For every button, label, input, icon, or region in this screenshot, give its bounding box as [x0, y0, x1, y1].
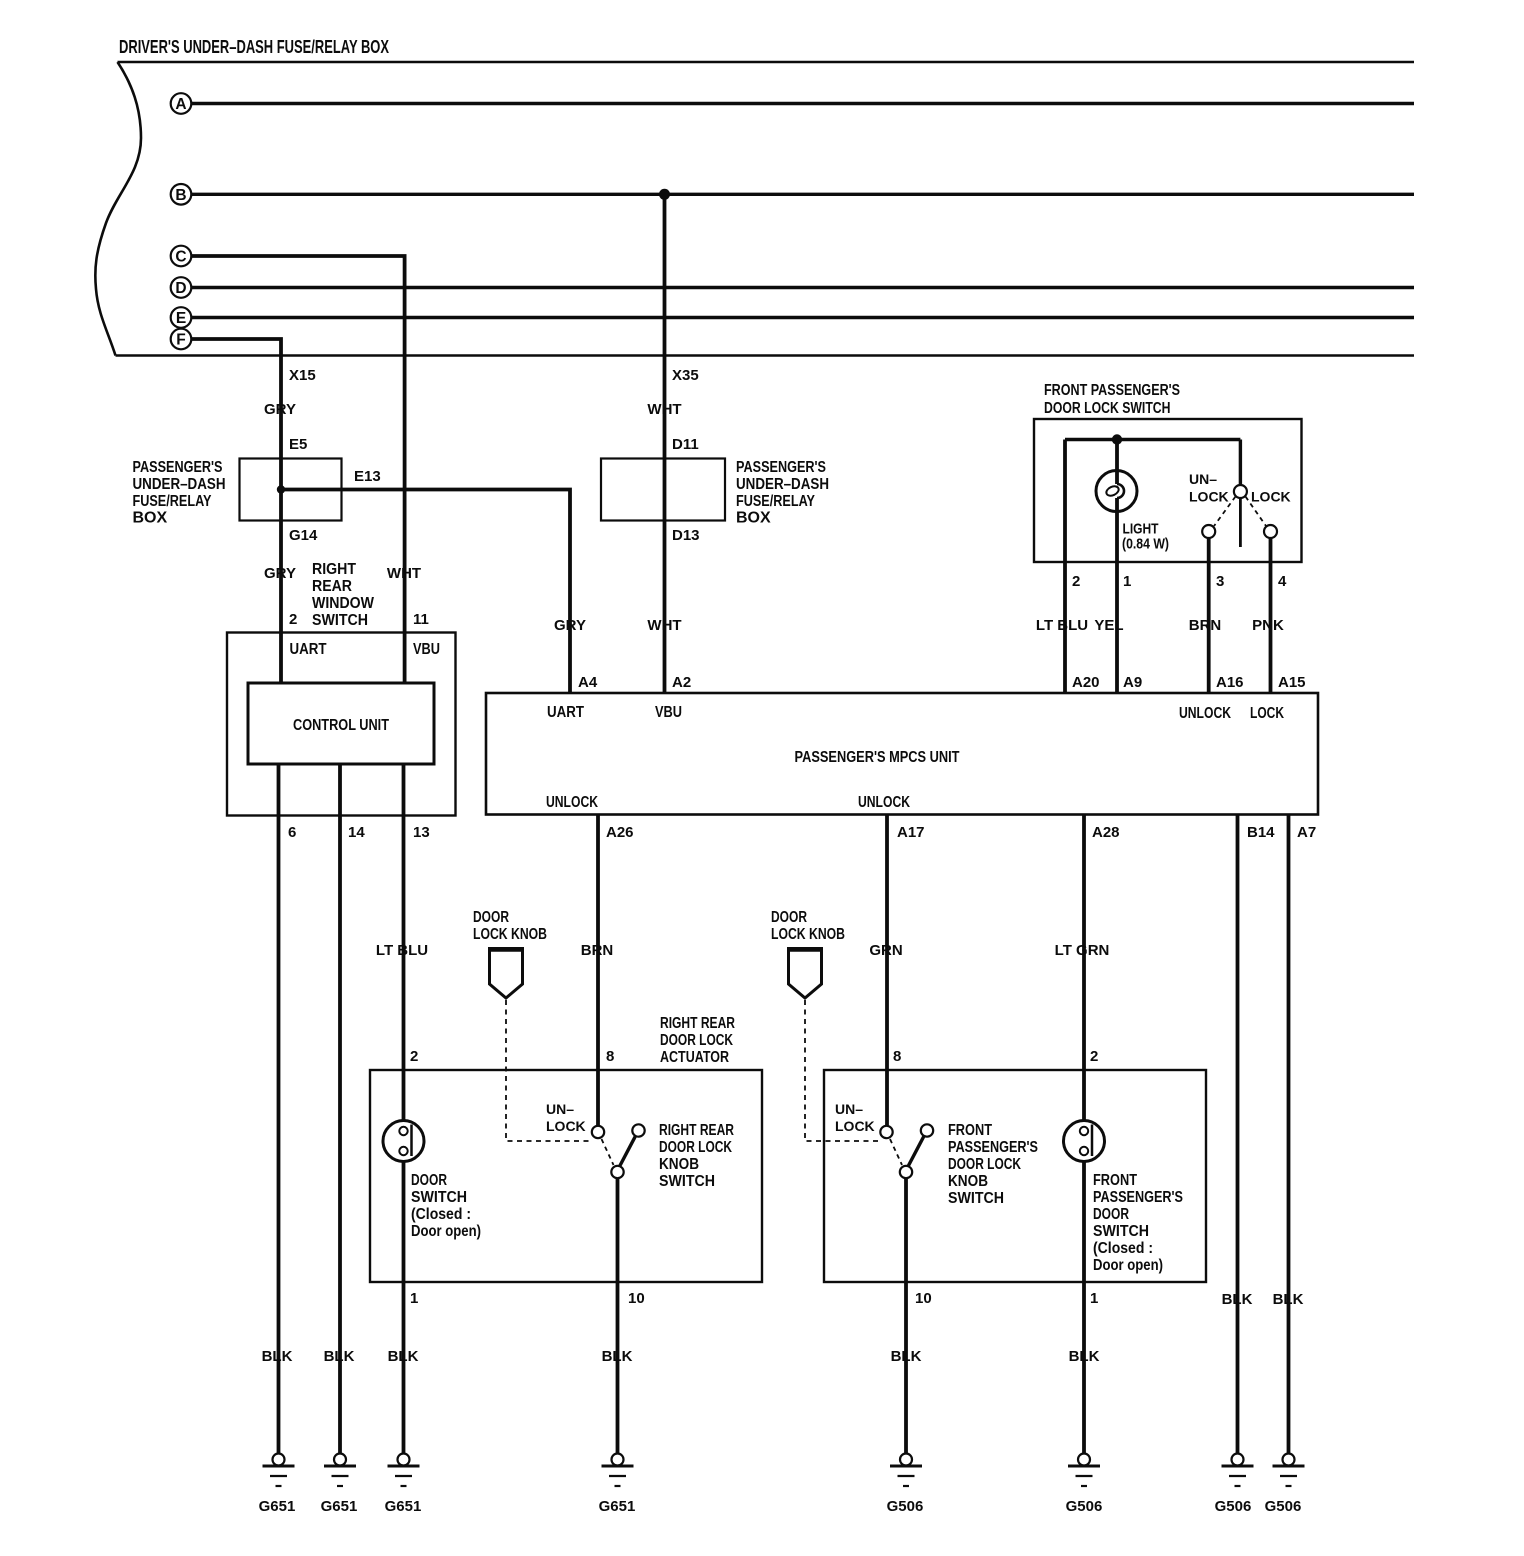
svg-text:FRONT PASSENGER'S: FRONT PASSENGER'S	[1044, 382, 1180, 399]
wire A26 (BRN) MPCS to rear knob switch	[596, 815, 600, 1127]
svg-text:WINDOW: WINDOW	[312, 595, 375, 612]
svg-text:FUSE/RELAY: FUSE/RELAY	[736, 493, 815, 510]
bus wire C to VBU vertical	[191, 256, 405, 683]
svg-text:GRY: GRY	[554, 617, 586, 634]
svg-text:Door open): Door open)	[1093, 1257, 1163, 1274]
svg-text:SWITCH: SWITCH	[948, 1190, 1004, 1207]
svg-text:RIGHT REAR: RIGHT REAR	[659, 1122, 734, 1139]
bus wire F to X15 vertical (GRY)	[191, 339, 282, 683]
svg-text:D13: D13	[672, 527, 700, 544]
svg-text:DOOR LOCK SWITCH: DOOR LOCK SWITCH	[1044, 400, 1171, 417]
svg-text:G651: G651	[321, 1498, 358, 1515]
svg-text:VBU: VBU	[655, 704, 682, 721]
bus wire B	[191, 193, 1415, 196]
svg-text:2: 2	[289, 611, 297, 628]
svg-text:KNOB: KNOB	[948, 1173, 988, 1190]
ground name G506 labels	[887, 1498, 1302, 1515]
ground G506 #3	[1222, 1454, 1254, 1487]
front knob switch unlock contact	[880, 1126, 892, 1138]
svg-text:REAR: REAR	[312, 578, 352, 595]
svg-text:X15: X15	[289, 367, 316, 384]
svg-text:D11: D11	[672, 436, 699, 453]
svg-text:DOOR LOCK: DOOR LOCK	[659, 1139, 732, 1156]
svg-text:A15: A15	[1278, 674, 1306, 691]
svg-text:UNLOCK: UNLOCK	[546, 794, 598, 811]
svg-text:G506: G506	[1215, 1498, 1252, 1515]
label rear door switch	[411, 1172, 481, 1240]
ground G506 #1	[890, 1454, 922, 1487]
svg-text:PASSENGER'S MPCS UNIT: PASSENGER'S MPCS UNIT	[795, 749, 960, 766]
svg-text:KNOB: KNOB	[659, 1156, 699, 1173]
svg-text:BLK: BLK	[262, 1348, 293, 1365]
svg-text:BLK: BLK	[891, 1348, 922, 1365]
rear knob switch dashed throw	[602, 1139, 614, 1165]
svg-text:UNDER–DASH: UNDER–DASH	[736, 476, 829, 493]
svg-text:A16: A16	[1216, 674, 1244, 691]
svg-text:UART: UART	[290, 641, 327, 658]
wire pin 13 (LT BLU) control unit to door switch	[402, 764, 406, 1128]
svg-text:A2: A2	[672, 674, 691, 691]
bus wire A	[191, 102, 1415, 105]
wire X35 (WHT) from bus B junction to MPCS A2	[663, 194, 667, 693]
front door switch symbol	[1064, 1121, 1105, 1162]
label door lock knob (right)	[771, 909, 845, 943]
door lock switch common contact	[1234, 485, 1247, 498]
driver's under-dash fuse/relay box outline	[95, 62, 1414, 356]
wire E13 (GRY) to MPCS A4	[281, 490, 570, 694]
rear knob switch lever	[620, 1136, 636, 1167]
svg-text:6: 6	[288, 824, 296, 841]
wire front door switch to ground G506	[1082, 1148, 1086, 1453]
control unit box	[248, 683, 434, 764]
svg-text:VBU: VBU	[413, 641, 440, 658]
door lock switch LOCK contact (pin 4)	[1264, 525, 1277, 538]
svg-text:UNDER–DASH: UNDER–DASH	[133, 476, 226, 493]
svg-text:(Closed :: (Closed :	[1093, 1240, 1153, 1257]
svg-text:LOCK: LOCK	[1189, 489, 1229, 505]
svg-text:D: D	[175, 280, 186, 297]
label right rear door lock actuator	[660, 1015, 735, 1066]
svg-text:UN–: UN–	[546, 1101, 574, 1117]
svg-text:RIGHT: RIGHT	[312, 561, 356, 578]
bus terminal C	[171, 246, 192, 267]
svg-text:F: F	[176, 332, 185, 349]
bus terminal D	[171, 277, 192, 298]
label front passenger's door switch	[1093, 1172, 1183, 1274]
ground name G651 labels	[259, 1498, 636, 1515]
label passenger's under-dash fuse/relay box (right)	[736, 459, 829, 527]
svg-text:BRN: BRN	[581, 942, 614, 959]
dashed link left knob to rear knob switch	[506, 1000, 593, 1141]
svg-text:SWITCH: SWITCH	[312, 612, 368, 629]
svg-text:G506: G506	[1066, 1498, 1103, 1515]
ground G506 #4	[1273, 1454, 1305, 1487]
svg-text:LOCK: LOCK	[835, 1118, 875, 1134]
door lock switch UNLOCK contact (pin 3)	[1202, 525, 1215, 538]
svg-text:C: C	[175, 249, 186, 266]
bus wire D	[191, 286, 1415, 289]
svg-text:G506: G506	[887, 1498, 924, 1515]
svg-text:BRN: BRN	[1189, 617, 1222, 634]
svg-text:CONTROL UNIT: CONTROL UNIT	[293, 717, 389, 734]
svg-text:UART: UART	[547, 704, 584, 721]
rear knob switch upper right contact	[632, 1124, 644, 1136]
wire pin 4 (PNK) to MPCS A15	[1269, 538, 1273, 693]
svg-text:PASSENGER'S: PASSENGER'S	[736, 459, 826, 476]
wire pin 1 (YEL) to lamp and MPCS A9	[1115, 440, 1119, 485]
right rear window switch box	[227, 633, 456, 816]
svg-text:DOOR LOCK: DOOR LOCK	[660, 1032, 733, 1049]
svg-text:BLK: BLK	[324, 1348, 355, 1365]
svg-text:RIGHT REAR: RIGHT REAR	[660, 1015, 735, 1032]
label UN-LOCK (switch left throw)	[1189, 471, 1229, 505]
svg-text:E5: E5	[289, 436, 307, 453]
svg-text:A7: A7	[1297, 824, 1316, 841]
svg-text:A28: A28	[1092, 824, 1120, 841]
svg-text:X35: X35	[672, 367, 699, 384]
svg-text:A26: A26	[606, 824, 634, 841]
svg-text:PASSENGER'S: PASSENGER'S	[1093, 1189, 1183, 1206]
svg-text:A9: A9	[1123, 674, 1142, 691]
svg-text:1: 1	[410, 1290, 418, 1307]
svg-text:PASSENGER'S: PASSENGER'S	[133, 459, 223, 476]
svg-text:BLK: BLK	[1069, 1348, 1100, 1365]
svg-text:LOCK: LOCK	[1251, 489, 1291, 505]
ground G651 #1	[263, 1454, 295, 1487]
bus terminal F	[171, 329, 192, 350]
rear knob switch unlock contact	[592, 1126, 604, 1138]
door lock knob connector (left)	[490, 949, 523, 999]
rear knob switch common contact	[611, 1166, 623, 1178]
svg-text:A17: A17	[897, 824, 925, 841]
svg-text:(Closed :: (Closed :	[411, 1206, 471, 1223]
svg-text:SWITCH: SWITCH	[411, 1189, 467, 1206]
svg-text:DOOR: DOOR	[473, 909, 509, 926]
svg-text:WHT: WHT	[647, 401, 681, 418]
svg-text:LOCK: LOCK	[546, 1118, 586, 1134]
front knob switch lever	[908, 1136, 924, 1167]
passenger's under-dash fuse/relay box (right)	[601, 459, 725, 521]
ground G651 #3	[388, 1454, 420, 1487]
svg-text:BLK: BLK	[602, 1348, 633, 1365]
lamp LIGHT 0.84W	[1096, 471, 1137, 512]
svg-text:G14: G14	[289, 527, 318, 544]
front knob switch upper right contact	[921, 1124, 933, 1136]
label passenger's under-dash fuse/relay box (left)	[133, 459, 226, 527]
svg-text:SWITCH: SWITCH	[1093, 1223, 1149, 1240]
wire A17 (GRN) MPCS to front knob switch	[885, 815, 889, 1127]
label front passenger's door lock switch	[1044, 382, 1180, 417]
svg-text:G506: G506	[1265, 1498, 1302, 1515]
passenger's MPCS unit box	[486, 693, 1318, 815]
junction E13 in left fuse box	[277, 485, 285, 493]
wire pin 2 (LT BLU) to MPCS A20	[1063, 440, 1067, 694]
svg-text:LOCK: LOCK	[1250, 705, 1284, 722]
label right rear window switch	[312, 561, 375, 629]
svg-text:G651: G651	[385, 1498, 422, 1515]
junction on bus B	[659, 189, 670, 200]
svg-text:2: 2	[1072, 573, 1080, 590]
svg-text:PNK: PNK	[1252, 617, 1284, 634]
svg-text:4: 4	[1278, 573, 1287, 590]
svg-text:14: 14	[348, 824, 365, 841]
svg-text:UN–: UN–	[835, 1101, 863, 1117]
svg-text:UNLOCK: UNLOCK	[858, 794, 910, 811]
door lock knob connector (right)	[789, 949, 822, 999]
svg-text:WHT: WHT	[647, 617, 681, 634]
svg-text:FRONT: FRONT	[1093, 1172, 1137, 1189]
svg-text:2: 2	[1090, 1048, 1098, 1065]
wire pin 3 (BRN) to MPCS A16	[1207, 538, 1211, 693]
passenger's under-dash fuse/relay box (left)	[240, 459, 342, 521]
svg-text:DOOR: DOOR	[411, 1172, 447, 1189]
bus terminal B	[171, 184, 192, 205]
svg-text:BLK: BLK	[1222, 1291, 1253, 1308]
svg-text:BOX: BOX	[736, 510, 771, 527]
ground G506 #2	[1068, 1454, 1100, 1487]
svg-text:LT BLU: LT BLU	[1036, 617, 1088, 634]
wire pin 14 (BLK) control unit to ground	[338, 764, 342, 1453]
ground G651 #2	[324, 1454, 356, 1487]
svg-text:G651: G651	[599, 1498, 636, 1515]
svg-text:G651: G651	[259, 1498, 296, 1515]
wire front knob switch pin 10 to ground	[904, 1178, 908, 1453]
svg-text:SWITCH: SWITCH	[659, 1173, 715, 1190]
svg-text:GRY: GRY	[264, 565, 296, 582]
wire color BLK labels	[262, 1291, 1304, 1365]
label front passenger's door lock knob switch	[948, 1122, 1038, 1207]
door lock switch dashed throws	[1214, 497, 1236, 527]
label LIGHT (0.84 W)	[1122, 521, 1169, 553]
svg-text:2: 2	[410, 1048, 418, 1065]
bus wire E	[191, 316, 1415, 319]
svg-text:BLK: BLK	[1273, 1291, 1304, 1308]
svg-text:1: 1	[1090, 1290, 1098, 1307]
svg-text:1: 1	[1123, 573, 1131, 590]
front passenger's door lock knob switch box	[824, 1070, 1206, 1282]
svg-text:Door open): Door open)	[411, 1223, 481, 1240]
svg-text:E: E	[176, 310, 186, 327]
wire rear knob switch pin 10 to ground	[616, 1178, 620, 1453]
door lock switch inner bus	[1065, 438, 1240, 441]
wire A7 (BLK) MPCS to ground	[1287, 815, 1291, 1454]
svg-text:13: 13	[413, 824, 430, 841]
svg-text:LT GRN: LT GRN	[1055, 942, 1110, 959]
front knob switch dashed throw	[890, 1139, 902, 1165]
label door lock knob (left)	[473, 909, 547, 943]
label right rear door lock knob switch	[659, 1122, 734, 1190]
svg-text:DOOR: DOOR	[771, 909, 807, 926]
front knob switch common contact	[900, 1166, 912, 1178]
svg-text:BLK: BLK	[388, 1348, 419, 1365]
door lock switch common contact wire	[1239, 440, 1242, 486]
svg-text:DOOR LOCK: DOOR LOCK	[948, 1156, 1021, 1173]
door lock switch lever	[1239, 498, 1242, 547]
svg-text:A: A	[175, 96, 186, 113]
dashed link right knob to front knob switch	[805, 1000, 881, 1141]
svg-text:ACTUATOR: ACTUATOR	[660, 1049, 729, 1066]
bus terminal E	[171, 307, 192, 328]
rear door switch symbol	[383, 1121, 424, 1162]
junction in door lock switch	[1112, 434, 1122, 444]
svg-text:GRN: GRN	[869, 942, 902, 959]
svg-text:3: 3	[1216, 573, 1224, 590]
svg-text:BOX: BOX	[133, 510, 168, 527]
svg-text:E13: E13	[354, 468, 381, 485]
svg-text:GRY: GRY	[264, 401, 296, 418]
svg-text:WHT: WHT	[387, 565, 421, 582]
svg-text:PASSENGER'S: PASSENGER'S	[948, 1139, 1038, 1156]
ground G651 #4	[602, 1454, 634, 1487]
svg-text:UN–: UN–	[1189, 471, 1217, 487]
wire door switch to ground G651	[402, 1148, 406, 1453]
svg-text:11: 11	[413, 611, 429, 628]
front passenger's door lock switch box	[1034, 419, 1302, 562]
svg-text:DOOR: DOOR	[1093, 1206, 1129, 1223]
wire B14 (BLK) MPCS to ground	[1236, 815, 1240, 1454]
svg-text:LOCK KNOB: LOCK KNOB	[473, 926, 547, 943]
svg-text:FUSE/RELAY: FUSE/RELAY	[133, 493, 212, 510]
svg-text:LOCK KNOB: LOCK KNOB	[771, 926, 845, 943]
wire A28 (LT GRN) MPCS to front door switch	[1082, 815, 1086, 1129]
svg-text:B: B	[175, 187, 186, 204]
svg-text:8: 8	[606, 1048, 614, 1065]
svg-text:(0.84 W): (0.84 W)	[1122, 536, 1169, 553]
svg-text:LT BLU: LT BLU	[376, 942, 428, 959]
wire pin 6 (BLK) control unit to ground	[277, 764, 281, 1453]
svg-text:YEL: YEL	[1094, 617, 1123, 634]
svg-text:8: 8	[893, 1048, 901, 1065]
svg-text:B14: B14	[1247, 824, 1275, 841]
right rear door lock actuator box	[370, 1070, 762, 1282]
svg-text:A20: A20	[1072, 674, 1100, 691]
label UN-LOCK (rear knob switch)	[546, 1101, 586, 1134]
svg-text:10: 10	[915, 1290, 932, 1307]
svg-text:A4: A4	[578, 674, 598, 691]
svg-text:FRONT: FRONT	[948, 1122, 992, 1139]
bus terminal A	[171, 93, 192, 114]
label UN-LOCK (front knob switch)	[835, 1101, 875, 1134]
svg-text:DRIVER'S UNDER–DASH FUSE/RELAY: DRIVER'S UNDER–DASH FUSE/RELAY BOX	[119, 37, 389, 57]
svg-text:UNLOCK: UNLOCK	[1179, 705, 1231, 722]
svg-text:10: 10	[628, 1290, 645, 1307]
